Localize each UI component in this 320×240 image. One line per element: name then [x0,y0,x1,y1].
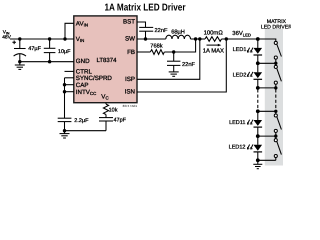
svg-text:2.2µF: 2.2µF [74,118,89,124]
svg-text:10k: 10k [109,107,118,113]
svg-text:ISN: ISN [125,89,135,96]
svg-text:22nF: 22nF [182,62,195,68]
svg-text:SW: SW [125,36,135,43]
svg-text:BST: BST [123,19,135,26]
svg-text:LED11: LED11 [229,120,245,126]
svg-text:47pF: 47pF [114,118,127,124]
svg-text:LED2: LED2 [233,72,247,78]
svg-text:FB: FB [127,49,135,56]
svg-text:768k: 768k [150,43,162,50]
svg-text:22nF: 22nF [155,28,168,34]
svg-text:CAP: CAP [76,82,89,89]
svg-text:LED12: LED12 [229,145,246,151]
svg-text:8374 TA01: 8374 TA01 [123,104,138,108]
svg-text:68µH: 68µH [171,29,185,35]
svg-text:LED DRIVER: LED DRIVER [261,24,291,30]
svg-text:100mΩ: 100mΩ [204,29,224,36]
svg-text:47µF: 47µF [28,46,41,52]
svg-text:10µF: 10µF [58,49,71,55]
svg-text:1A Matrix LED Driver: 1A Matrix LED Driver [105,2,186,13]
svg-text:LT8374: LT8374 [97,57,118,64]
svg-text:48V: 48V [2,35,11,41]
svg-text:+: + [12,40,16,47]
svg-text:GND: GND [76,58,90,65]
svg-text:1A MAX: 1A MAX [203,47,224,54]
svg-text:ISP: ISP [125,76,135,83]
svg-text:LED1: LED1 [233,47,247,53]
